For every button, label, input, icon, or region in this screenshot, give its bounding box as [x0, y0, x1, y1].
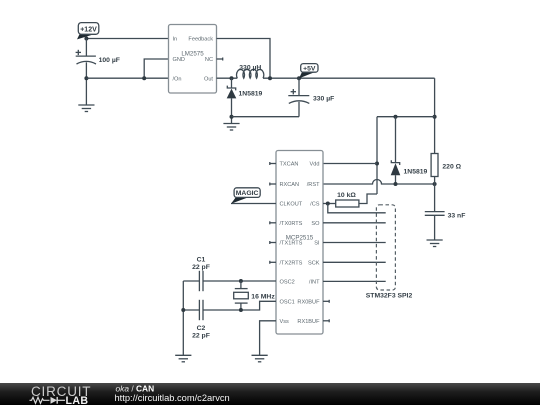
- ground under 100 µF: [78, 105, 94, 112]
- junction dot +5V branch: [433, 115, 437, 119]
- junction dot +5V / 330µF node: [297, 76, 301, 80]
- junction dot OSC2/XTAL: [239, 279, 243, 283]
- junction dot feedback node: [268, 76, 272, 80]
- net flag +5V: [299, 64, 318, 79]
- pin TXCAN stub: [270, 162, 276, 165]
- svg-text:STM32F3 SPI2: STM32F3 SPI2: [366, 292, 413, 299]
- diode D1 1N5819 (catch diode): [227, 78, 263, 123]
- footer bar: [0, 383, 540, 405]
- svg-text:33 nF: 33 nF: [448, 213, 466, 220]
- svg-text:330 µF: 330 µF: [313, 96, 334, 103]
- resistor R1 10 kΩ (/CS pull-up): [323, 192, 377, 207]
- svg-text:LM2575: LM2575: [181, 50, 204, 57]
- svg-text:+12V: +12V: [80, 26, 97, 33]
- svg-text:/CS: /CS: [310, 202, 320, 208]
- wire /CS branch to SPI: [328, 204, 386, 213]
- pin RXCAN stub: [270, 183, 276, 186]
- svg-text:/RST: /RST: [307, 182, 320, 188]
- svg-text:RXCAN: RXCAN: [280, 182, 300, 188]
- ground under D1: [223, 124, 239, 131]
- capacitor C1 22 pF: [192, 256, 210, 291]
- pin NC stub: [217, 58, 223, 61]
- junction dot Out/diode node: [230, 76, 234, 80]
- wire +5V rail: [263, 77, 435, 79]
- junction dot Vdd tie: [375, 162, 379, 166]
- svg-text:/TX1RTS: /TX1RTS: [280, 241, 303, 247]
- svg-text:RX1BUF: RX1BUF: [297, 319, 320, 325]
- wire +12V rail to In pin: [86, 38, 168, 40]
- node +12V (junction dot): [84, 37, 88, 41]
- svg-text:22 pF: 22 pF: [192, 264, 210, 271]
- wire Out pin: [217, 77, 238, 79]
- capacitor 100 µF: [76, 50, 120, 64]
- wire vertical to /CS pull-up: [376, 117, 378, 194]
- wire /INT: [323, 280, 386, 282]
- svg-text:1N5819: 1N5819: [404, 168, 428, 175]
- svg-text:+5V: +5V: [303, 65, 316, 72]
- junction dot /RST / R / C node: [433, 182, 437, 186]
- svg-text:CLKOUT: CLKOUT: [280, 202, 303, 208]
- svg-text:http://circuitlab.com/c2arvcn: http://circuitlab.com/c2arvcn: [115, 393, 230, 403]
- wire left vertical to ground: [182, 281, 184, 355]
- svg-text:C1: C1: [197, 256, 206, 263]
- junction dot C2/gnd vertical: [181, 308, 185, 312]
- resistor R2 220 Ω: [431, 154, 462, 212]
- svg-text:In: In: [173, 37, 178, 43]
- capacitor 33 nF: [425, 212, 466, 240]
- wire +12V node down to C capacitor: [85, 39, 87, 57]
- svg-text:TXCAN: TXCAN: [280, 162, 299, 168]
- wire CLKOUT to MAGIC flag: [231, 203, 276, 205]
- svg-text:Vdd: Vdd: [310, 162, 320, 168]
- junction dot XTAL bottom: [239, 308, 243, 312]
- capacitor C2 22 pF: [192, 300, 210, 340]
- wire Vdd: [323, 163, 377, 165]
- svg-text:MAGIC: MAGIC: [236, 190, 259, 197]
- wire C1 left to vertical: [183, 280, 199, 282]
- wire Vss: [260, 321, 276, 356]
- svg-text:1N5819: 1N5819: [239, 91, 263, 98]
- svg-text:C2: C2: [197, 325, 206, 332]
- svg-text:/INT: /INT: [309, 280, 320, 286]
- wire GND branch: [144, 59, 168, 78]
- wire +5V branch to Vdd/diode: [377, 116, 435, 118]
- ground under 33nF: [427, 240, 443, 247]
- wire gnd rail under 330µF: [232, 116, 300, 118]
- pin RX0BUF stub: [323, 300, 329, 303]
- wire SI: [323, 242, 386, 244]
- junction dot diode anode on /RST: [394, 182, 398, 186]
- IC U1 LM2575: [169, 25, 217, 94]
- svg-text:LAB: LAB: [66, 395, 89, 405]
- dashed box STM32F3 SPI2: [366, 205, 413, 300]
- svg-text:RX0BUF: RX0BUF: [297, 299, 320, 305]
- diode D2 1N5819 (/RST clamp): [391, 117, 428, 184]
- wire SCK: [323, 261, 386, 263]
- svg-text:/TX0RTS: /TX0RTS: [280, 221, 303, 227]
- CircuitLab logo resistor zigzag: [30, 397, 50, 403]
- svg-text:Vss: Vss: [280, 319, 290, 325]
- junction dot D2 cathode tie: [394, 115, 398, 119]
- ground under crystal caps: [175, 355, 191, 362]
- svg-text:16 MHz: 16 MHz: [251, 294, 275, 301]
- svg-text:MCP2515: MCP2515: [286, 234, 314, 241]
- crystal X1 16 MHz: [234, 281, 276, 310]
- wire Feedback to output node: [217, 39, 271, 79]
- wire C2 left to vertical: [183, 309, 199, 311]
- capacitor 330 µF: [288, 78, 334, 117]
- IC U2 MCP2515: [276, 151, 323, 335]
- pin /TX0RTS stub: [270, 221, 276, 224]
- svg-text:NC: NC: [205, 57, 213, 63]
- wire OSC1 row: [203, 301, 276, 310]
- junction dot diode anode / gnd rail: [230, 115, 234, 119]
- net flag MAGIC: [231, 188, 260, 204]
- svg-text:/TX2RTS: /TX2RTS: [280, 260, 303, 266]
- wire /RST with hop over pull-up: [323, 180, 435, 185]
- wire C bottom to ground rail: [85, 62, 87, 105]
- svg-text:OSC2: OSC2: [280, 280, 295, 286]
- svg-text:330 µH: 330 µH: [239, 64, 261, 71]
- svg-text:GND: GND: [173, 57, 185, 63]
- wire OSC2 row: [203, 280, 276, 282]
- net flag +12V: [77, 23, 99, 40]
- inductor L1 330 µH: [237, 64, 264, 78]
- svg-text:SI: SI: [314, 241, 320, 247]
- wire SO: [323, 222, 386, 224]
- svg-text:oka / CAN: oka / CAN: [116, 383, 155, 393]
- svg-text:Feedback: Feedback: [188, 37, 213, 43]
- wire +5V right vertical: [434, 78, 436, 153]
- svg-text:/On: /On: [173, 76, 182, 82]
- pin /TX2RTS stub: [270, 261, 276, 264]
- svg-text:OSC1: OSC1: [280, 299, 295, 305]
- svg-text:SCK: SCK: [308, 260, 320, 266]
- svg-text:220 Ω: 220 Ω: [442, 164, 461, 171]
- pin RX1BUF stub: [323, 319, 329, 322]
- svg-text:100 µF: 100 µF: [99, 57, 120, 64]
- svg-text:22 pF: 22 pF: [192, 332, 210, 339]
- junction dot C bottom rail: [84, 76, 88, 80]
- svg-text:SO: SO: [311, 221, 320, 227]
- ground under Vss: [252, 355, 268, 362]
- wire /On-GND rail: [86, 77, 168, 79]
- CircuitLab logo diode: [51, 397, 58, 404]
- svg-text:Out: Out: [204, 76, 213, 82]
- junction dot GND//On rail: [142, 76, 146, 80]
- svg-text:10 kΩ: 10 kΩ: [337, 192, 356, 199]
- junction dot /CS node: [326, 202, 330, 206]
- pin /TX1RTS stub: [270, 241, 276, 244]
